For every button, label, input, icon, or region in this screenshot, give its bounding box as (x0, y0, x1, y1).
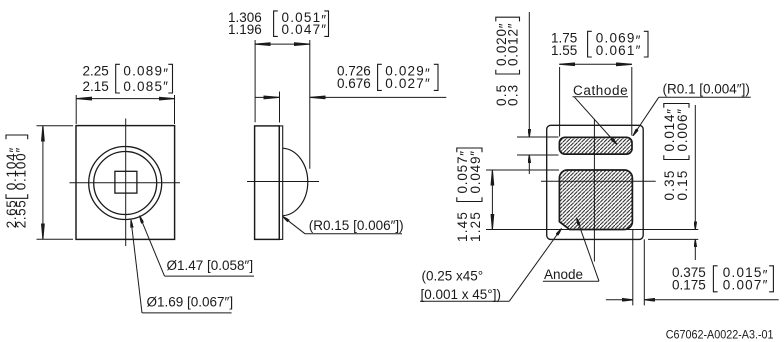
svg-text:(R0.1 [0.004″]): (R0.1 [0.004″]) (663, 82, 750, 97)
svg-text:C67062-A0022-A3.-01: C67062-A0022-A3.-01 (666, 329, 774, 341)
dim height ext line top (37, 125, 74, 127)
underline R0.15 (305, 233, 402, 235)
dim height ext line bottom (37, 238, 74, 240)
dim 0.726/0.676 text (337, 63, 438, 91)
dim 0.5 ext line top (517, 136, 559, 138)
dim 1.75/1.55 text (551, 30, 648, 58)
dim 0.5 lower arrow line (528, 155, 530, 174)
svg-text:(R0.15 [0.006″]): (R0.15 [0.006″]) (309, 218, 404, 233)
label cathode (573, 83, 628, 98)
label R0.1 (663, 82, 750, 97)
svg-text:0.047″: 0.047″ (282, 22, 328, 37)
leader cathode (575, 97, 618, 144)
cathode pad (559, 137, 632, 154)
svg-text:(0.25 x45°: (0.25 x45° (422, 269, 484, 284)
underline chamfer (420, 300, 509, 302)
dim 0.35/0.15 rotated text (662, 104, 690, 201)
dim 1.306 ext line right (lens apex) (309, 40, 311, 169)
svg-text:Anode: Anode (544, 267, 583, 282)
svg-text:0.100″: 0.100″ (14, 147, 29, 190)
svg-text:1.196: 1.196 (228, 22, 262, 37)
svg-text:Ø1.69 [0.067″]: Ø1.69 [0.067″] (147, 295, 234, 310)
leader line diam 1.69 (131, 220, 142, 313)
dim 0.726 ext line (front face) (279, 92, 281, 123)
pad layout outline (547, 125, 644, 239)
front view vertical centerline (125, 119, 127, 247)
package outline front view (76, 126, 175, 240)
dim 1.45/1.25 rotated text (455, 148, 483, 242)
svg-text:2.55: 2.55 (14, 200, 29, 229)
dim 1.306/1.196 text (228, 10, 329, 37)
dim 1.45 line (491, 170, 493, 230)
underline R0.1 (659, 96, 751, 98)
side view lens dome (283, 148, 308, 216)
leader R0.1 (633, 97, 659, 136)
dim 0.375 right arrow line (644, 299, 778, 301)
svg-text:2.15: 2.15 (83, 79, 109, 94)
dim 1.45 ext+pad bottom line (486, 229, 698, 231)
svg-text:0.676: 0.676 (337, 76, 371, 91)
label chamfer line2 (421, 287, 501, 302)
dim 0.5 ext line bottom (517, 154, 559, 156)
dim width ext line right (174, 95, 176, 124)
dim 0.35 upper arrow line (694, 105, 696, 230)
dim 0.5 upper arrow line (528, 12, 530, 137)
side view body (255, 126, 280, 239)
dim 1.45 ext line top (486, 169, 559, 171)
leader chamfer 0.25x45 (509, 229, 561, 302)
svg-text:0.007″: 0.007″ (723, 278, 769, 293)
label anode (544, 267, 583, 282)
lens ring outer (diam 1.69) (89, 147, 162, 220)
svg-text:0.175: 0.175 (672, 278, 706, 293)
svg-text:Cathode: Cathode (573, 83, 628, 98)
dim 0.375 ext left (pad edge) (632, 230, 634, 306)
svg-text:0.061″: 0.061″ (596, 43, 642, 58)
dim 0.375 ext right (outline edge) (643, 239, 645, 305)
leader R0.15 (283, 216, 306, 234)
pad view vertical centerline (593, 119, 595, 262)
dim 0.726 right arrow line (310, 96, 447, 98)
svg-text:0.15: 0.15 (675, 169, 690, 200)
label chamfer line1 (422, 269, 484, 284)
svg-text:0.012″: 0.012″ (506, 23, 521, 66)
underline cathode (573, 96, 629, 98)
label diam 1.69 (147, 295, 234, 310)
dim height 2.65/2.55 rotated text (4, 135, 29, 228)
svg-text:0.3: 0.3 (506, 84, 521, 106)
svg-text:2.25: 2.25 (83, 63, 109, 78)
svg-text:0.085″: 0.085″ (123, 79, 169, 94)
leader line diam 1.47 (140, 216, 165, 276)
svg-text:0.049″: 0.049″ (468, 150, 483, 193)
dim 1.306 line (255, 43, 310, 45)
anode pad (559, 170, 632, 230)
dim width 2.25/2.15 line (76, 98, 174, 100)
pad view horizontal centerline (541, 180, 656, 182)
lens ring inner (diam 1.47) (94, 152, 157, 215)
dim 0.5/0.3 rotated text (494, 17, 521, 106)
label R0.15 (309, 218, 404, 233)
dim 0.726 left arrow line (255, 96, 279, 98)
svg-text:0.006″: 0.006″ (675, 108, 690, 151)
side view lens base strip (279, 126, 282, 239)
svg-text:1.55: 1.55 (551, 43, 577, 58)
underline diam 1.69 (142, 312, 232, 314)
svg-text:0.027″: 0.027″ (385, 76, 431, 91)
LED chip square (115, 171, 137, 193)
front view horizontal centerline (70, 182, 181, 184)
dim width ext line left (75, 95, 77, 124)
dim height 2.65/2.55 line (42, 126, 44, 240)
drawing number (666, 329, 774, 341)
leader anode (577, 218, 600, 281)
label diam 1.47 (167, 258, 254, 273)
underline diam 1.47 (165, 275, 255, 277)
svg-text:[0.001 x 45°]): [0.001 x 45°]) (421, 287, 501, 302)
dim 1.306 ext line left (254, 40, 256, 122)
underline anode (543, 280, 599, 282)
dim width 2.25/2.15 text (83, 63, 173, 94)
dim 1.75 ext right (631, 67, 633, 136)
dim 0.375/0.175 text (672, 265, 773, 293)
dim 0.375 left arrow line (606, 299, 633, 301)
svg-text:Ø1.47 [0.058″]: Ø1.47 [0.058″] (167, 258, 254, 273)
dim 0.35 lower arrow line (694, 239, 696, 260)
side view centerline (247, 181, 319, 183)
dim 0.35 ext line (648, 238, 698, 240)
dim 1.75 ext left (559, 67, 561, 137)
svg-text:1.25: 1.25 (468, 211, 483, 242)
dim 1.75 line (560, 63, 632, 65)
